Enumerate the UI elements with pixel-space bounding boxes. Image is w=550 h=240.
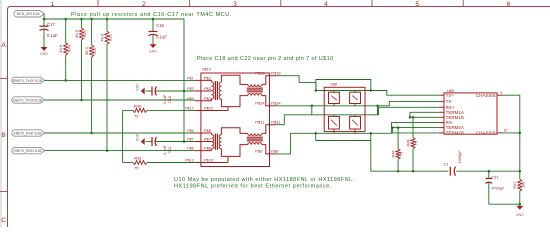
capacitor C1 1000pF [449, 167, 451, 176]
svg-text:Place C18 and C22 near pin 2 a: Place C18 and C22 near pin 2 and pin 7 o… [197, 56, 334, 62]
junction row4 right [370, 132, 373, 135]
svg-text:0.1uF: 0.1uF [163, 94, 167, 104]
svg-text:GND: GND [40, 52, 49, 56]
junction R23 on TXON wire [80, 99, 83, 102]
wire MCU_3V3 descender to center taps [183, 19, 185, 142]
ESD diode D3 [329, 116, 340, 129]
frame column tick 2-3 [189, 0, 191, 7]
jack pin TERM1B [439, 116, 444, 118]
svg-text:P$8: P$8 [187, 147, 193, 151]
resistor R24 49.9 [65, 19, 67, 43]
wire ENET0_TXOP to U10 pin PS1 [45, 79, 195, 81]
wire ENET0_RXIN to U10 pin PS8 [45, 150, 195, 152]
jack pin CHASSIS bottom [497, 132, 503, 134]
junction R22 on RXIP wire [90, 132, 93, 135]
jack pin TX+ [439, 94, 444, 96]
svg-text:P$16: P$16 [271, 71, 281, 76]
transformer U10 outline [201, 73, 270, 167]
svg-text:TERM2B: TERM2B [446, 131, 464, 136]
svg-text:CHASSIS: CHASSIS [476, 93, 496, 98]
svg-text:P$12: P$12 [204, 106, 214, 111]
wire MCU_3V3 rail [44, 18, 184, 20]
svg-text:0.1uF: 0.1uF [156, 35, 167, 40]
junction rail C31 [488, 170, 491, 173]
svg-text:MCU_3V3 8,2A: MCU_3V3 8,2A [17, 12, 41, 16]
svg-text:R46: R46 [392, 151, 396, 158]
wire TERM2A [392, 127, 438, 129]
wire PS11 to jack RX+ [276, 107, 439, 124]
junction R46 rail [397, 170, 400, 173]
svg-text:49.9: 49.9 [100, 33, 105, 42]
wire PS9 to jack RX- [276, 123, 439, 154]
resistor R47 1M [519, 171, 521, 179]
primary winding [211, 80, 213, 82]
svg-text:49.9: 49.9 [58, 44, 63, 53]
wire PS16 to ESD row1 [276, 76, 316, 83]
resistor R21 49.9 [106, 19, 108, 31]
capacitor C17 [43, 19, 45, 26]
jack pin TX- [439, 101, 444, 103]
svg-text:C31: C31 [492, 176, 499, 180]
choke bottom winding [248, 94, 262, 96]
svg-text:U$10: U$10 [202, 67, 211, 71]
junction R48 top [412, 116, 415, 119]
svg-text:75: 75 [134, 113, 139, 118]
ESD diode D2 [350, 92, 361, 103]
wire PS14 to jack TX- [276, 102, 439, 106]
svg-text:C22: C22 [168, 147, 172, 154]
pin P$13 [195, 162, 228, 164]
ground GND below C17 [41, 47, 47, 50]
transformer core [214, 134, 216, 150]
junction R21 on RXIN wire [106, 149, 109, 152]
svg-text:2: 2 [142, 1, 146, 8]
ESD diode D1 [329, 92, 340, 103]
svg-text:10: 10 [504, 129, 508, 133]
wire C31 bottom to GND node [489, 203, 520, 205]
svg-text:P$11: P$11 [255, 120, 265, 125]
junction rail chassis R47 [519, 170, 522, 173]
pin P$2 [195, 90, 212, 92]
svg-text:ENET0_TXON 8,2B: ENET0_TXON 8,2B [13, 98, 43, 102]
choke core [247, 87, 263, 89]
junction descender PS2 row [183, 90, 186, 93]
svg-text:75: 75 [134, 165, 139, 170]
svg-text:P$6: P$6 [204, 128, 212, 133]
wire TERM1B [410, 116, 439, 118]
svg-text:P$7: P$7 [187, 138, 193, 142]
svg-text:P$1: P$1 [187, 76, 193, 80]
svg-text:P$9: P$9 [255, 149, 263, 154]
ground GND bottom right [519, 204, 521, 206]
svg-text:P$9: P$9 [271, 149, 279, 154]
svg-text:75: 75 [415, 141, 419, 145]
svg-text:C16: C16 [156, 23, 164, 28]
resistor R30 75 [123, 109, 133, 111]
junction TERM1A-TERM1B [409, 116, 412, 119]
svg-text:C1: C1 [444, 162, 449, 167]
resistor R43 75 [123, 162, 133, 164]
svg-text:C: C [1, 217, 6, 224]
svg-text:HX1198FNL preferred for best E: HX1198FNL preferred for best Ethernet pe… [174, 184, 332, 190]
secondary winding [219, 135, 221, 149]
svg-text:TERM2A: TERM2A [446, 125, 464, 130]
frame row tick B-C [0, 191, 7, 193]
jack pin TERM2A [439, 127, 444, 129]
capacitor C31 4700pF [488, 171, 490, 178]
capacitor C16 [152, 19, 154, 32]
choke bottom winding [248, 143, 262, 145]
svg-text:P$13: P$13 [185, 159, 193, 163]
secondary to choke top link [221, 75, 247, 84]
junction chassis [519, 132, 522, 135]
net flag MCU_3V3 [14, 11, 45, 17]
svg-text:C18: C18 [168, 96, 172, 103]
svg-text:P$14: P$14 [271, 101, 281, 106]
secondary to choke bottom link [221, 145, 247, 157]
wire ENET0_RXIP to U10 pin PS6 [45, 132, 195, 134]
ground GND left of C22 [141, 139, 144, 145]
transformer core [214, 81, 216, 100]
svg-text:R24: R24 [66, 44, 71, 52]
junction rail C17 [43, 18, 46, 21]
ground GND below C16 [150, 45, 156, 48]
svg-text:GND: GND [136, 83, 140, 91]
svg-text:R23: R23 [82, 30, 87, 38]
svg-text:P$2: P$2 [204, 86, 212, 91]
svg-text:ENET0_RXIN 8,2B: ENET0_RXIN 8,2B [13, 149, 42, 153]
junction rail R21 [106, 18, 109, 21]
svg-text:CHASSIS: CHASSIS [476, 130, 496, 135]
svg-text:GND: GND [149, 50, 158, 54]
wire R30 to R43 link [122, 110, 124, 162]
pin P$14 [262, 96, 276, 106]
svg-text:4: 4 [324, 1, 328, 8]
capacitor C22 [146, 141, 152, 143]
svg-text:4700pF: 4700pF [492, 186, 506, 190]
pin P$16 [262, 76, 276, 85]
svg-text:TERM1B: TERM1B [446, 115, 464, 120]
junction rail R22 [90, 18, 93, 21]
junction rail R23 [80, 18, 83, 21]
pin P$11 [262, 125, 276, 134]
secondary winding [219, 82, 221, 99]
wire ESD ground riser to rail [370, 141, 372, 172]
junction rail C16 [152, 18, 155, 21]
net flag ENET0_TXOP [12, 77, 45, 83]
svg-text:TX+: TX+ [446, 93, 455, 98]
svg-text:P$6: P$6 [187, 129, 193, 133]
svg-text:P$13: P$13 [204, 158, 214, 163]
resistor R23 49.9 [81, 19, 83, 28]
primary winding [211, 133, 213, 135]
svg-text:1M: 1M [521, 182, 525, 187]
jack pin TERM2B [439, 132, 444, 134]
svg-text:P$2: P$2 [187, 87, 193, 91]
svg-text:ENET0_RXIP 8,2B: ENET0_RXIP 8,2B [14, 131, 43, 135]
svg-text:Place pull up resistors and C1: Place pull up resistors and C16-C17 near… [71, 12, 232, 18]
svg-text:3: 3 [233, 1, 237, 8]
wire MCU_3V3 flag elbow [43, 14, 45, 19]
net flag ENET0_RXIN [12, 147, 45, 153]
frame row tick A-B [0, 78, 7, 80]
net flag ENET0_TXON [12, 97, 45, 103]
junction row1 right [370, 89, 373, 92]
frame left gray edge [0, 0, 2, 227]
jack pin RX+ [439, 106, 444, 108]
resistor R46 75 [397, 128, 399, 149]
wire TERM2B [392, 128, 438, 133]
svg-text:TX-: TX- [446, 99, 454, 104]
ESD diode D4 [350, 116, 361, 129]
svg-text:ENET0_TXOP 8,2B: ENET0_TXOP 8,2B [13, 79, 43, 83]
frame column tick 3-4 [280, 0, 282, 7]
svg-text:49.9: 49.9 [74, 29, 79, 38]
junction GND node [519, 203, 522, 206]
resistor R22 49.9 [91, 19, 93, 45]
junction row4 left [314, 132, 317, 135]
choke core [247, 136, 263, 138]
svg-text:P$7: P$7 [204, 137, 212, 142]
jack pin RX- [439, 122, 444, 124]
svg-text:P$3: P$3 [187, 97, 193, 101]
wire chassis bottom [503, 132, 520, 134]
svg-text:P$14: P$14 [255, 101, 265, 106]
svg-text:A: A [1, 42, 6, 49]
svg-text:1: 1 [51, 1, 55, 8]
wire ESD row1 TX+ [315, 82, 317, 90]
pin P$8 [195, 150, 212, 152]
svg-text:R43: R43 [134, 156, 142, 161]
pin P$12 [195, 110, 228, 112]
choke top winding [248, 84, 262, 86]
wire termination rail left [371, 170, 449, 172]
svg-text:5: 5 [415, 1, 419, 8]
pin P$1 [195, 79, 212, 81]
svg-text:P$16: P$16 [255, 71, 265, 76]
choke top winding [248, 133, 262, 135]
wire ESD right link [377, 106, 379, 115]
resistor R48 75 [412, 117, 414, 137]
junction R46 top [397, 126, 400, 129]
junction row1 left [315, 89, 318, 92]
capacitor C18 [146, 90, 152, 92]
wire termination rail right [456, 170, 520, 172]
junction row2 right [376, 105, 379, 108]
secondary to choke bottom link [221, 96, 247, 107]
svg-text:R47: R47 [513, 182, 517, 189]
svg-text:U$8: U$8 [331, 82, 337, 86]
svg-text:P$8: P$8 [204, 146, 212, 151]
junction R48 rail [412, 170, 415, 173]
svg-text:P$12: P$12 [185, 107, 193, 111]
pin P$3 [195, 100, 212, 102]
wire chassis top to ground rail [503, 95, 520, 171]
secondary to choke top link [221, 128, 247, 135]
svg-text:U10 May be populated with eith: U10 May be populated with either HX1188F… [174, 177, 355, 183]
wire ESD top loop [316, 80, 371, 91]
svg-text:P$3: P$3 [204, 96, 212, 101]
jack pin TERM1A [439, 111, 444, 113]
svg-text:P$1: P$1 [204, 75, 212, 80]
svg-text:9: 9 [501, 91, 503, 95]
svg-text:GND: GND [136, 133, 140, 141]
wire TERM1A [410, 112, 439, 117]
svg-text:B: B [1, 132, 6, 139]
junction rail R24 [64, 18, 67, 21]
svg-text:C17: C17 [47, 22, 55, 27]
junction TERM2A-TERM2B [391, 126, 394, 129]
pin P$9 [262, 145, 276, 154]
junction R24 on TXOP wire [64, 79, 67, 82]
frame column tick 1-2 [97, 0, 99, 7]
wire ESD bottom loop [316, 133, 371, 140]
svg-text:0.1uF: 0.1uF [47, 33, 58, 38]
svg-text:75: 75 [400, 152, 404, 156]
svg-text:R21: R21 [108, 33, 113, 41]
wire ENET0_TXON to U10 pin PS3 [45, 99, 195, 101]
svg-text:R22: R22 [92, 47, 97, 55]
pin P$7 [195, 141, 212, 143]
pin P$6 [195, 132, 212, 134]
svg-text:49.9: 49.9 [84, 46, 89, 55]
wire ESD left link [311, 106, 313, 115]
frame column tick 5-6 [462, 0, 464, 7]
junction descender PS7 row [183, 140, 186, 143]
ground GND left of C18 [141, 88, 144, 94]
svg-text:R48: R48 [406, 140, 410, 147]
svg-text:0.1uF: 0.1uF [163, 144, 167, 154]
net flag ENET0_RXIP [12, 130, 45, 136]
svg-text:R30: R30 [134, 104, 142, 109]
junction row2 left [311, 105, 314, 108]
svg-text:1000pF: 1000pF [457, 150, 462, 164]
ethernet jack U9 outline [444, 93, 497, 134]
jack pin CHASSIS top [497, 94, 503, 96]
svg-text:6: 6 [507, 1, 511, 8]
svg-text:GND: GND [516, 213, 525, 217]
ESD diode array U8 outline [324, 87, 365, 131]
svg-text:P$11: P$11 [271, 120, 281, 125]
frame column tick 4-5 [371, 0, 373, 7]
